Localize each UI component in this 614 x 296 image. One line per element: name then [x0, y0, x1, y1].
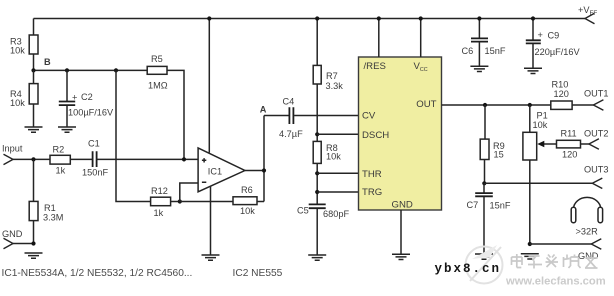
- svg-text:CV: CV: [362, 111, 376, 122]
- svg-text:/RES: /RES: [364, 61, 386, 72]
- svg-text:>32R: >32R: [576, 227, 599, 237]
- svg-text:220µF/16V: 220µF/16V: [535, 47, 581, 57]
- connector GND phones: [578, 239, 601, 261]
- wire op-amp output: [245, 116, 264, 202]
- svg-text:3.3M: 3.3M: [43, 213, 63, 223]
- svg-text:OUT2: OUT2: [584, 129, 609, 139]
- svg-text:680pF: 680pF: [323, 209, 349, 219]
- svg-text:DSCH: DSCH: [362, 130, 389, 141]
- svg-text:+: +: [538, 30, 543, 40]
- ground: [58, 127, 76, 132]
- wire node B to R12: [116, 70, 151, 201]
- svg-text:R12: R12: [151, 186, 168, 196]
- wire VCC pin: [420, 19, 422, 58]
- capacitor C1: [82, 139, 108, 178]
- svg-text:GND: GND: [2, 229, 23, 239]
- wire op-amp V- pin: [210, 186, 212, 255]
- svg-text:10k: 10k: [240, 206, 255, 216]
- node DSCH junction: [315, 132, 358, 136]
- ground: [524, 68, 542, 73]
- node THR junction: [315, 171, 358, 175]
- svg-text:GND: GND: [392, 200, 413, 211]
- svg-text:10k: 10k: [533, 120, 548, 130]
- svg-text:15: 15: [494, 150, 504, 160]
- svg-text:4.7µF: 4.7µF: [279, 129, 303, 139]
- node TRG junction: [315, 190, 358, 194]
- resistor R6: [180, 185, 264, 216]
- resistor R8: [313, 141, 341, 204]
- headphones icon: [571, 197, 602, 236]
- watermark elecfans chinese: [512, 254, 598, 269]
- svg-text:C7: C7: [467, 200, 479, 210]
- svg-text:15nF: 15nF: [485, 46, 506, 56]
- svg-text:C4: C4: [283, 97, 295, 107]
- capacitor C2: [59, 70, 114, 127]
- wire GND pin: [400, 210, 402, 254]
- svg-text:10k: 10k: [326, 152, 341, 162]
- IC2 NE555 box: [359, 57, 442, 211]
- svg-text:R7: R7: [326, 71, 338, 81]
- capacitor C5: [297, 204, 349, 255]
- node R1 junction: [31, 157, 35, 161]
- capacitor C6: [462, 16, 506, 66]
- resistor R10: [551, 80, 572, 110]
- resistor R11: [557, 129, 589, 160]
- svg-text:www.elecfans.com: www.elecfans.com: [505, 276, 606, 288]
- ground: [25, 253, 43, 258]
- svg-text:OUT3: OUT3: [584, 165, 609, 175]
- wire /RES pin: [378, 19, 380, 58]
- wire top supply rail: [34, 18, 586, 20]
- op-amp U1 IC1: [198, 148, 245, 192]
- connector GND: [2, 229, 36, 249]
- capacitor C9: [526, 16, 581, 68]
- svg-text:B: B: [44, 57, 51, 67]
- connector OUT2: [584, 129, 609, 150]
- svg-text:1k: 1k: [154, 208, 164, 218]
- svg-text:ybx8.cn: ybx8.cn: [435, 262, 502, 276]
- svg-text:1k: 1k: [56, 166, 66, 176]
- ground: [25, 127, 43, 132]
- resistor R3: [10, 19, 38, 71]
- svg-text:3.3k: 3.3k: [326, 81, 344, 91]
- capacitor C4: [279, 97, 303, 140]
- wire op-amp V+ pin: [208, 19, 210, 153]
- resistor R1: [29, 159, 63, 243]
- svg-text:IC2 NE555: IC2 NE555: [233, 268, 283, 279]
- svg-text:R11: R11: [561, 129, 577, 139]
- svg-text:+VFF: +VFF: [578, 5, 597, 17]
- connector OUT1: [584, 89, 609, 111]
- node R5 junction: [182, 157, 186, 161]
- svg-text:120: 120: [562, 150, 577, 160]
- svg-text:C6: C6: [462, 46, 474, 56]
- svg-text:15nF: 15nF: [490, 201, 511, 211]
- svg-text:IC1: IC1: [208, 167, 222, 177]
- svg-text:R2: R2: [53, 145, 65, 155]
- wire OUT pin: [442, 104, 594, 106]
- svg-text:C5: C5: [297, 206, 309, 216]
- resistor R2: [50, 145, 70, 176]
- connector +VFF: [578, 5, 597, 24]
- svg-text:TRG: TRG: [362, 187, 382, 198]
- svg-text:OUT: OUT: [416, 99, 436, 110]
- svg-text:Input: Input: [2, 144, 23, 154]
- svg-text:C9: C9: [548, 31, 560, 41]
- node phones ground junction: [528, 242, 532, 246]
- svg-text:R5: R5: [151, 54, 163, 64]
- svg-text:1MΩ: 1MΩ: [148, 81, 168, 91]
- node A: [260, 104, 289, 115]
- svg-text:A: A: [260, 104, 267, 114]
- svg-text:THR: THR: [362, 169, 382, 180]
- ground: [475, 254, 493, 259]
- resistor R7: [313, 16, 343, 141]
- wire OUT3: [484, 182, 592, 184]
- svg-text:P1: P1: [537, 111, 548, 121]
- node B: [31, 57, 147, 73]
- svg-text:150nF: 150nF: [82, 168, 108, 178]
- node R12/R6 junction: [178, 199, 182, 203]
- svg-text:+: +: [72, 93, 77, 103]
- svg-text:100µF/16V: 100µF/16V: [68, 108, 114, 118]
- connector Input: [2, 144, 23, 165]
- wire input line: [13, 158, 198, 160]
- node R9/C7 junction: [482, 181, 486, 185]
- svg-text:OUT1: OUT1: [584, 89, 609, 99]
- watermark logo circle: [466, 245, 503, 284]
- wire C4 to CV pin: [294, 115, 358, 117]
- wire phones ground: [530, 243, 592, 245]
- svg-text:10k: 10k: [10, 98, 25, 108]
- resistor R4: [10, 70, 38, 127]
- svg-text:C1: C1: [88, 139, 100, 149]
- ground: [392, 254, 410, 259]
- svg-text:10k: 10k: [10, 46, 25, 56]
- ground: [202, 255, 220, 260]
- svg-text:R10: R10: [552, 80, 569, 90]
- resistor R5: [147, 54, 184, 159]
- potentiometer P1: [523, 105, 557, 244]
- capacitor C7: [467, 183, 511, 254]
- svg-text:R6: R6: [241, 185, 253, 195]
- svg-text:R1: R1: [44, 203, 56, 213]
- wire to inverting input: [180, 183, 198, 202]
- svg-text:120: 120: [554, 89, 569, 99]
- connector OUT3: [584, 165, 609, 189]
- resistor R12: [151, 186, 180, 218]
- ground: [308, 255, 326, 260]
- ground: [470, 66, 488, 71]
- ground: [521, 254, 539, 259]
- svg-text:IC1-NE5534A, 1/2 NE5532, 1/2 R: IC1-NE5534A, 1/2 NE5532, 1/2 RC4560...: [2, 268, 193, 279]
- svg-text:C2: C2: [81, 92, 93, 102]
- resistor R9: [480, 105, 505, 183]
